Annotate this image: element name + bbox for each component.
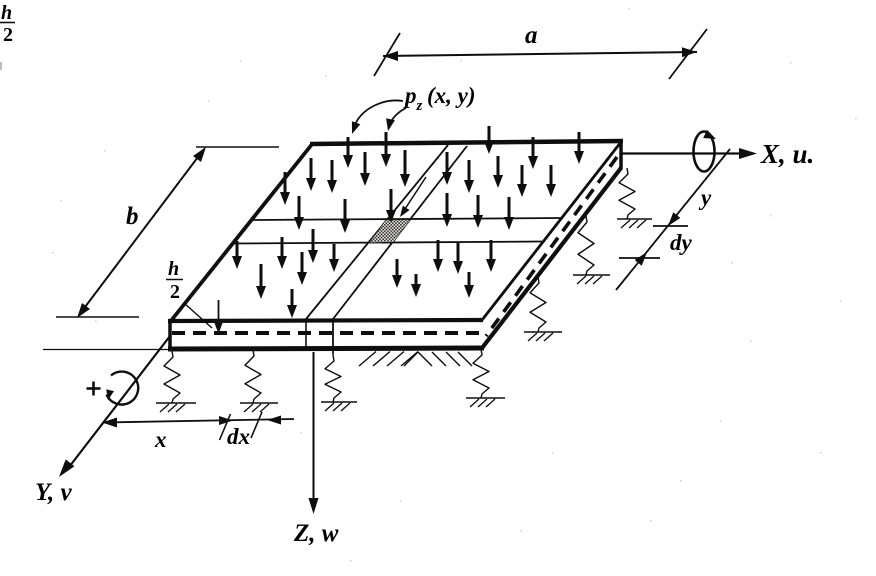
load arrow C12: [453, 242, 463, 274]
Y axis rotation arrow: [107, 372, 139, 405]
load arrow A8: [360, 152, 370, 186]
spring S6 with ground: [573, 216, 610, 284]
svg-text:y: y: [698, 185, 712, 210]
h/2 leader line: [184, 303, 212, 328]
dimension dx tick 2: [251, 412, 262, 438]
plate right face outer edge: [482, 168, 621, 348]
shaded element dx dy: [369, 220, 411, 243]
Y axis: [66, 336, 170, 471]
load arrow C2: [256, 264, 266, 299]
plate top face left edge: [170, 143, 313, 322]
load arrow A6: [306, 158, 316, 191]
plate right face rear vertical edge: [619, 141, 623, 169]
spring S2 with ground: [240, 350, 278, 412]
X axis rotation arrow: [694, 132, 715, 172]
spring S4 with ground: [466, 349, 505, 407]
dimension b line: [79, 149, 204, 315]
dimension x left arrowhead: [102, 418, 117, 428]
load arrow C3: [277, 237, 287, 269]
X axis: [622, 152, 744, 154]
load arrow A3: [484, 126, 494, 154]
dx line extension to spring S3: [332, 318, 334, 355]
svg-text:h: h: [168, 258, 179, 280]
svg-text:dy: dy: [670, 230, 693, 255]
load arrow B1: [294, 196, 304, 230]
plate top face rear edge: [310, 141, 623, 144]
load arrow A4: [528, 137, 538, 169]
pointer curve 2: [389, 108, 406, 126]
dimension y arrowhead: [668, 212, 680, 226]
dimension a right tick: [669, 29, 707, 79]
dimension a right arrowhead: [682, 47, 697, 57]
load arrow C6: [308, 229, 318, 263]
plate front face top edge: [168, 320, 483, 321]
load arrow B3: [386, 189, 396, 223]
load arrow A13: [517, 165, 527, 197]
svg-text:dx: dx: [227, 424, 250, 449]
dimension b bottom arrowhead: [77, 303, 90, 318]
load arrow C10: [411, 274, 421, 297]
dimension b bottom tick: [56, 316, 139, 318]
pointer curve 1: [354, 100, 403, 127]
svg-text:2: 2: [170, 281, 180, 303]
load arrow A2: [381, 132, 391, 167]
load arrow C7: [329, 244, 339, 272]
plate front face left edge: [168, 320, 172, 350]
dimension dy arrowhead: [635, 252, 647, 266]
plate mid-plane dashed line right face: [486, 157, 617, 336]
svg-text:a: a: [525, 22, 538, 49]
load arrow B4: [442, 193, 452, 227]
spring S3 with ground: [321, 355, 357, 411]
load arrow C14: [464, 272, 474, 298]
dx strip front face line 1: [305, 319, 307, 347]
spring S5 with ground: [524, 277, 562, 341]
plate mid-plane dashed line front: [172, 331, 480, 335]
load arrow B2: [340, 199, 350, 233]
load arrow C11: [433, 240, 443, 272]
dimension dy tick 2: [619, 257, 660, 259]
load arrow C1: [232, 241, 242, 269]
spring S7 with ground: [617, 168, 652, 228]
reference line left of plate: [43, 349, 170, 351]
dimension a left arrowhead: [383, 51, 398, 61]
load arrow A15: [280, 172, 290, 205]
plate top face right edge: [482, 142, 621, 320]
dx strip front face line 2: [332, 318, 334, 353]
plate front face bottom edge: [168, 348, 484, 349]
load arrow B6: [504, 197, 514, 230]
plus sign: [87, 387, 101, 390]
load arrow C9: [392, 259, 402, 288]
load arrow B5: [473, 195, 483, 228]
svg-text:Y, v: Y, v: [35, 479, 72, 506]
dimension y tick 1: [653, 225, 688, 227]
svg-text:Z, w: Z, w: [293, 520, 339, 547]
spring S1 with ground: [156, 351, 196, 412]
dimension b top arrowhead: [193, 147, 206, 162]
load arrow A1: [343, 137, 353, 168]
dimension a left tick: [374, 33, 400, 76]
dimension dx right arrowhead: [219, 416, 233, 425]
load arrow C5: [297, 252, 307, 285]
dx strip diagonal 1: [306, 145, 448, 319]
dimension b top tick: [196, 146, 279, 148]
svg-text:h: h: [1, 2, 12, 24]
dy strip line 2: [233, 242, 542, 244]
load arrow C13: [486, 240, 496, 272]
svg-text:b: b: [126, 203, 139, 230]
left edge scan mark: [0, 62, 2, 70]
load arrow A14: [546, 165, 556, 197]
element pointer arrow: [403, 177, 426, 212]
load arrow A9: [400, 150, 410, 187]
ground hatch strip under plate: [359, 352, 472, 367]
dimension a line: [383, 52, 697, 56]
load arrow C4: [287, 289, 297, 318]
Z axis: [313, 352, 315, 503]
dimension dx left arrowhead: [267, 416, 281, 425]
svg-text:x: x: [154, 427, 167, 452]
svg-text:X, u.: X, u.: [760, 139, 814, 169]
dimension y line: [616, 149, 730, 290]
dimension x line: [103, 419, 294, 423]
load arrow A7: [327, 160, 337, 193]
svg-text:2: 2: [3, 24, 13, 46]
load arrow A11: [464, 160, 474, 193]
h/2 arrow: [218, 300, 220, 324]
load arrow A12: [493, 156, 503, 188]
dimension dx tick 1: [220, 414, 231, 440]
load arrow A5: [574, 132, 584, 164]
load arrow A10: [442, 152, 452, 185]
dy strip line 1: [251, 218, 562, 220]
dx strip diagonal 2: [333, 146, 467, 319]
